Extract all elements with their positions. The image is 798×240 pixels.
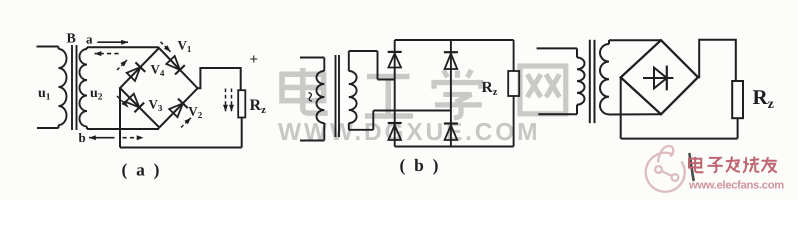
svg-text:V4: V4 bbox=[151, 62, 165, 79]
svg-text:Rz: Rz bbox=[753, 85, 774, 112]
svg-text:www.elecfans.com: www.elecfans.com bbox=[688, 180, 784, 192]
svg-text:V2: V2 bbox=[188, 104, 202, 121]
svg-text:( b ): ( b ) bbox=[400, 155, 441, 175]
svg-text:u1: u1 bbox=[38, 86, 51, 103]
svg-text:V1: V1 bbox=[178, 38, 192, 55]
svg-text:Rz: Rz bbox=[250, 97, 267, 116]
svg-text:u2: u2 bbox=[90, 86, 103, 103]
svg-text:b: b bbox=[79, 130, 86, 145]
svg-text:WWW.DGXUE.COM: WWW.DGXUE.COM bbox=[278, 119, 540, 146]
svg-text:+: + bbox=[250, 52, 259, 68]
svg-text:Rz: Rz bbox=[482, 79, 498, 98]
svg-text:B: B bbox=[67, 32, 76, 47]
svg-text:V3: V3 bbox=[149, 97, 163, 114]
svg-text:a: a bbox=[86, 32, 93, 47]
svg-text:~: ~ bbox=[299, 92, 320, 102]
svg-text:( a ): ( a ) bbox=[122, 160, 162, 180]
